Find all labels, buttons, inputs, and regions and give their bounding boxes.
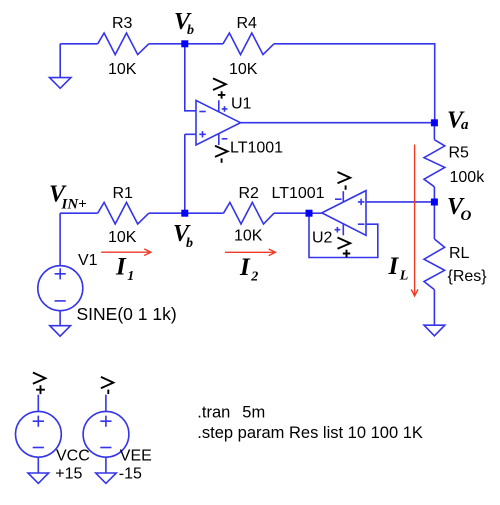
wire <box>309 213 378 257</box>
svg-text:R4: R4 <box>237 15 258 32</box>
svg-text:.step param Res list 10 100 1K: .step param Res list 10 100 1K <box>197 424 423 442</box>
svg-text:R3: R3 <box>112 15 133 32</box>
wire <box>149 43 223 45</box>
svg-text:R5: R5 <box>449 145 470 162</box>
svg-text:LT1001: LT1001 <box>230 140 283 157</box>
svg-text:R1: R1 <box>113 185 134 202</box>
resistor R5 <box>424 140 445 187</box>
svg-text:I2: I2 <box>239 254 258 285</box>
svg-text:10K: 10K <box>234 228 263 245</box>
svg-text:.tran: .tran <box>197 403 230 421</box>
wire <box>59 311 61 326</box>
ground <box>50 44 71 89</box>
svg-text:V1: V1 <box>78 252 98 269</box>
svg-text:{Res}: {Res} <box>448 268 488 285</box>
svg-text:-15: -15 <box>119 465 142 482</box>
wire <box>366 201 434 203</box>
wire <box>274 212 309 214</box>
svg-text:Vb: Vb <box>173 221 193 251</box>
svg-text:LT1001: LT1001 <box>272 185 325 202</box>
wire <box>433 187 435 202</box>
wire <box>433 290 435 325</box>
svg-text:VO: VO <box>447 194 472 224</box>
wire <box>60 43 97 45</box>
svg-text:VEE: VEE <box>120 448 152 465</box>
voltage source VEE <box>83 395 129 473</box>
wire <box>241 122 435 124</box>
svg-text:RL: RL <box>449 245 470 262</box>
wire <box>59 213 61 266</box>
svg-text:VCC: VCC <box>56 448 90 465</box>
wire <box>185 44 196 111</box>
svg-text:10K: 10K <box>229 61 258 78</box>
wire <box>185 212 224 214</box>
svg-text:SINE(0 1 1k): SINE(0 1 1k) <box>77 304 177 324</box>
current arrow I1 <box>101 249 151 256</box>
resistor RL <box>424 239 445 290</box>
node U2 output junction <box>306 210 313 217</box>
net flag V+ of VCC <box>33 373 46 395</box>
svg-text:IL: IL <box>388 253 409 284</box>
resistor R2 <box>224 202 275 224</box>
ground <box>28 473 49 483</box>
node Va junction <box>431 119 438 126</box>
svg-text:VIN+: VIN+ <box>49 182 87 213</box>
svg-text:U2: U2 <box>312 230 333 247</box>
net flag V- of U1 <box>215 146 228 163</box>
wire <box>149 212 185 214</box>
ground <box>424 325 445 336</box>
resistor R4 <box>223 33 274 55</box>
svg-text:R2: R2 <box>239 185 260 202</box>
svg-text:U1: U1 <box>231 96 252 113</box>
current arrow IL <box>411 145 418 297</box>
svg-text:Va: Va <box>447 108 469 134</box>
resistor R1 <box>98 202 149 224</box>
wire <box>433 123 435 140</box>
svg-text:+15: +15 <box>55 465 82 482</box>
ground <box>50 326 71 337</box>
op-amp U2 <box>322 191 366 236</box>
net flag V+ of U2 <box>338 238 351 258</box>
wire <box>60 212 98 214</box>
ground <box>96 473 117 483</box>
node Vb top junction <box>181 40 188 47</box>
svg-text:5m: 5m <box>242 403 265 421</box>
wire <box>433 202 435 239</box>
wire <box>274 44 435 123</box>
svg-text:100k: 100k <box>450 169 486 186</box>
net flag V- of VEE <box>101 377 114 394</box>
resistor R3 <box>98 33 149 55</box>
node Vo junction <box>431 199 438 206</box>
net flag V+ of U1 <box>213 78 226 98</box>
net flag V- of U2 <box>338 172 351 190</box>
svg-text:I1: I1 <box>115 254 134 285</box>
voltage source V1 <box>38 266 83 311</box>
wire <box>185 134 196 213</box>
wire <box>309 212 322 214</box>
svg-text:10K: 10K <box>108 61 137 78</box>
op-amp U1 <box>196 100 241 145</box>
svg-text:Vb: Vb <box>174 9 194 38</box>
voltage source VCC <box>16 395 62 473</box>
current arrow I2 <box>225 249 275 256</box>
node Vb bottom junction <box>181 210 188 217</box>
svg-text:10K: 10K <box>108 229 137 246</box>
